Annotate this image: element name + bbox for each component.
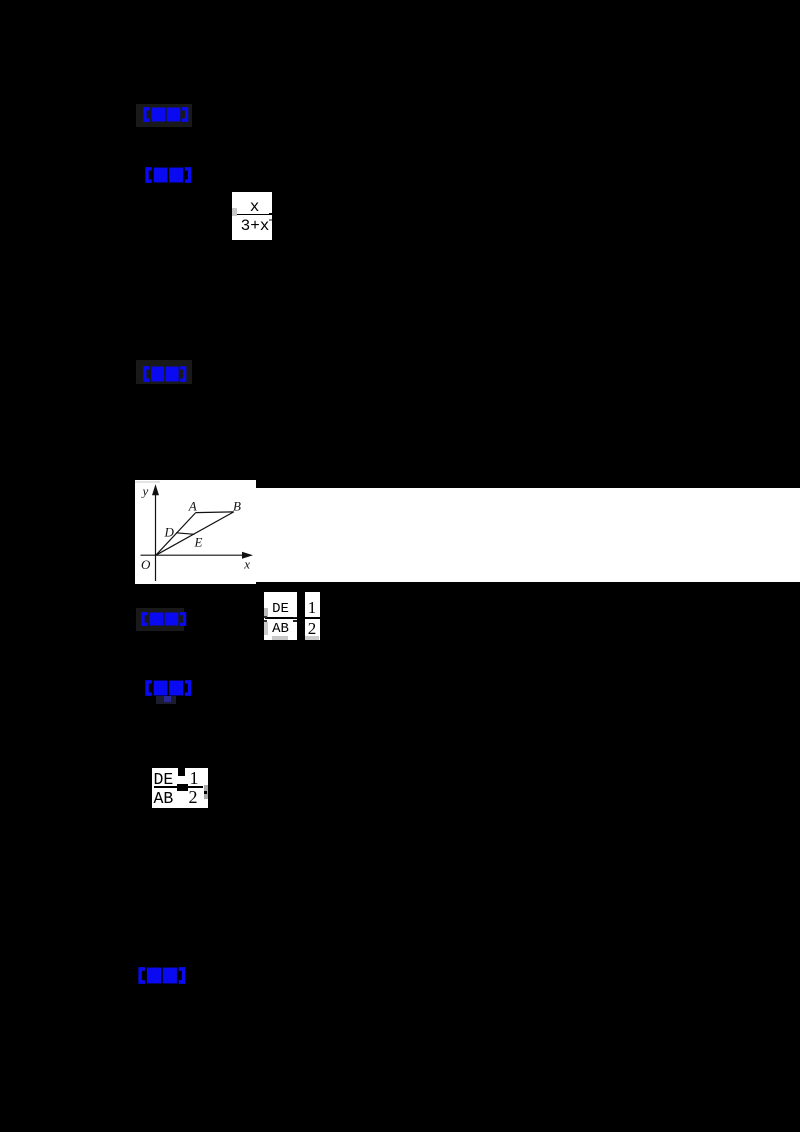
x axis arrowhead [242,552,253,559]
x axis [141,554,244,556]
segment A-B [196,511,234,514]
blue label 4 [140,612,187,626]
svg-text:B: B [233,498,241,513]
svg-text:x: x [243,556,250,571]
svg-text:O: O [141,557,151,572]
blue label 1 [142,107,189,122]
grey halo box label 1 [136,104,192,127]
segment D-E [176,533,194,535]
svg-text:A: A [188,499,197,514]
math image 1 : x/(3+x) [232,192,272,240]
grey halo box label 3 [136,360,192,384]
blue label 6 [137,967,186,984]
svg-text:y: y [141,483,149,498]
math image 2a : DE/AB [264,592,297,640]
svg-text:E: E [194,534,203,549]
math image 3 : DE/AB = 1/2 [152,768,208,808]
descender blob under label 5 [156,696,176,704]
blue label 5 [144,680,192,696]
grey halo box label 4 [136,608,184,631]
math image 2b : 1/2 [305,592,320,640]
white strip right of figure [256,488,800,582]
y axis arrowhead [152,484,159,495]
line O-A [156,513,196,556]
light grey top band [135,481,160,484]
figure image: coordinate system [135,480,256,584]
line O-B [156,512,234,555]
blue label 3 [142,366,187,382]
y axis [155,493,157,581]
svg-text:D: D [164,525,175,540]
blue label 2 [144,167,192,183]
